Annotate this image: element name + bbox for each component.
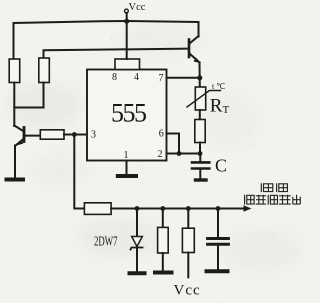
node R7 — [186, 206, 191, 211]
svg-text:4: 4 — [134, 72, 139, 83]
svg-text:2DW7: 2DW7 — [94, 233, 118, 249]
ground R6 — [155, 271, 172, 275]
op-amp U1 555 body — [87, 70, 167, 161]
resistor R4 — [195, 120, 205, 143]
wire Q1 emitter down — [14, 146, 16, 178]
wire Q2 emitter down — [199, 63, 201, 88]
wire R7 to Vcc — [187, 253, 189, 278]
node pin3 — [72, 132, 77, 137]
svg-text:1: 1 — [124, 150, 129, 161]
node zener — [135, 206, 140, 211]
node R6 — [160, 206, 165, 211]
wire R6 bottom lead — [162, 253, 164, 270]
resistor R1 — [9, 59, 20, 83]
arrow output — [244, 205, 252, 212]
svg-text:8: 8 — [112, 72, 117, 83]
resistor R6 — [158, 227, 169, 253]
svg-text:Vcc: Vcc — [129, 2, 146, 13]
wire pin7 — [167, 77, 200, 79]
node Vcc on top rail — [124, 19, 129, 24]
wire R7 top lead — [187, 209, 189, 229]
node pin2 cap — [198, 151, 203, 156]
label output text CJK — [245, 183, 301, 204]
resistor R7 — [182, 228, 194, 252]
wire R4 to pin2 node — [199, 143, 201, 154]
ground pin1 — [118, 174, 136, 178]
wire pin2 — [167, 153, 201, 155]
wire second rail (base feed) — [44, 49, 189, 58]
svg-text:t ℃: t ℃ — [212, 82, 225, 91]
svg-text:6: 6 — [159, 129, 164, 140]
ground VD1 — [130, 271, 145, 275]
ground Q1 emitter — [7, 178, 24, 182]
transistor Q2 — [189, 36, 200, 63]
resistor R5 output series — [84, 203, 111, 215]
Vcc terminal top — [125, 9, 129, 59]
capacitor C1 — [192, 154, 209, 179]
svg-text:555: 555 — [111, 99, 146, 128]
svg-text:7: 7 — [159, 73, 164, 84]
wire R3 to pin3 — [64, 134, 87, 136]
resistor R3 base series — [40, 130, 64, 139]
ground C2 — [207, 269, 228, 273]
resistor R2 — [39, 58, 50, 83]
wire pin3 node down to output resistor — [74, 135, 84, 209]
wire top rail — [14, 21, 199, 59]
svg-text:C: C — [215, 156, 227, 176]
zener VD1 2DW7 — [131, 209, 143, 272]
notch pins 8-4 — [115, 59, 140, 70]
ground C1 — [196, 178, 207, 181]
node C2 — [216, 206, 221, 211]
wire pin6 stub — [167, 134, 180, 154]
wire pin1 — [126, 161, 128, 174]
thermistor RT — [187, 87, 221, 110]
node pin7 emitter — [197, 75, 202, 80]
node pin6-pin2 — [177, 151, 182, 156]
svg-text:2: 2 — [158, 149, 163, 160]
wire R1 bottom to collector junction — [13, 83, 15, 127]
capacitor C2 — [208, 209, 229, 269]
wire R2 bottom to junction — [14, 83, 43, 108]
svg-text:Vcc: Vcc — [174, 283, 201, 299]
wire R6 top lead — [162, 209, 164, 228]
transistor Q1 — [14, 126, 40, 146]
wire RT to R4 — [199, 110, 201, 120]
wire output bus — [111, 208, 247, 210]
svg-text:3: 3 — [91, 130, 96, 141]
